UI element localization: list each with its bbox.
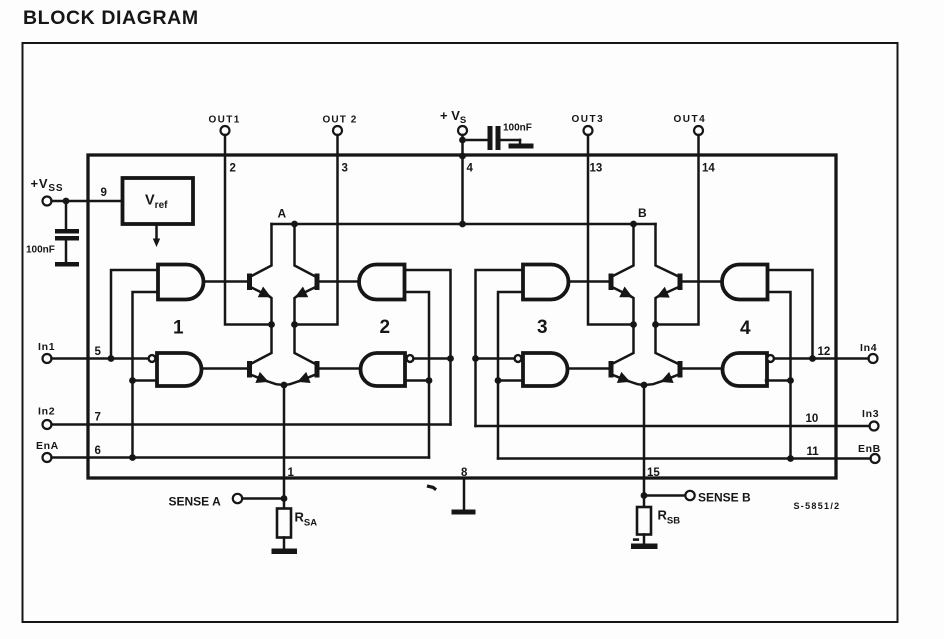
and gate 2 bottom (inverting input) (361, 353, 451, 386)
svg-text:OUT4: OUT4 (674, 114, 707, 125)
and gate 1 top (158, 265, 204, 300)
junction +VS / capacitor tap (459, 137, 466, 144)
junction common emitter A (281, 382, 288, 389)
wire gate1 bottom output to Q2 base (203, 367, 247, 370)
svg-text:15: 15 (647, 467, 660, 479)
junction common emitter B (641, 382, 648, 389)
resistor RSA (277, 499, 317, 538)
ground at RSB (631, 535, 658, 550)
and gate 4 bottom (inverting input) (723, 353, 774, 386)
wire gate4 top output to Q7 base (682, 280, 722, 283)
svg-text:11: 11 (807, 446, 820, 458)
wire In4 (774, 357, 869, 360)
wire EnB bus channel4 (768, 292, 791, 459)
wire EnA (52, 456, 430, 459)
wire gate2 bottom output to Q4 base (319, 367, 360, 370)
wire In3 bus up to gate3 top input (476, 270, 524, 426)
transistor Q3 upper (channel 2) (295, 224, 320, 325)
pin In1 (38, 341, 102, 363)
junction In3 bus / gate3 inverting input (472, 355, 479, 362)
pin 8 ground (452, 467, 476, 515)
pin SENSE A (169, 494, 285, 509)
junction EnA bus / gate2 lower input (426, 377, 433, 384)
wire EnB bus channel3 (498, 292, 523, 459)
wire EnA to gate1 lower input (133, 379, 158, 382)
wire In2 bus up to gate2 top input (405, 270, 451, 425)
wire EnB to gate3 lower input (498, 379, 523, 382)
wire pin9 to Vref (52, 200, 123, 203)
transistor Q5 upper (channel 3) (609, 224, 634, 325)
wire EnA to gate2 lower input (405, 379, 429, 382)
junction sense B (641, 492, 648, 499)
and gate 1 bottom (inverting input) (149, 353, 202, 386)
svg-text:Vref: Vref (145, 193, 168, 211)
svg-text:2: 2 (380, 317, 391, 338)
wire OUT4 to half-bridge 4 output node (656, 135, 699, 325)
pin In3 (806, 408, 880, 431)
svg-text:A: A (278, 207, 287, 221)
svg-text:12: 12 (818, 346, 831, 358)
svg-text:OUT 2: OUT 2 (323, 115, 358, 126)
svg-text:In4: In4 (860, 342, 877, 354)
wire gate4 bottom output to Q8 base (682, 367, 722, 370)
and gate 2 top (359, 265, 405, 300)
junction output node half-bridge 2 (291, 321, 298, 328)
junction EnB bus / gate3 lower input (495, 377, 502, 384)
junction output node half-bridge 1 (268, 321, 275, 328)
svg-text:SENSE B: SENSE B (698, 491, 751, 505)
ground at +VSS capacitor (55, 262, 79, 267)
junction sense A (281, 495, 288, 502)
pin OUT1 (209, 115, 241, 175)
junction rail / +VS (459, 221, 466, 228)
pin SENSE B (644, 491, 751, 505)
IC body (88, 155, 836, 478)
transistor Q7 upper (channel 4) (656, 224, 683, 325)
junction EnA bus / gate1 lower input (129, 377, 136, 384)
svg-text:OUT1: OUT1 (209, 115, 241, 126)
wire In1 to gate1 top input (111, 270, 158, 359)
and gate 3 top (523, 265, 569, 300)
svg-text:4: 4 (467, 163, 474, 175)
svg-text:13: 13 (590, 163, 603, 175)
svg-text:SENSE A: SENSE A (169, 495, 222, 509)
svg-text:3: 3 (342, 163, 348, 175)
wire In3 to gate3 inverting input (476, 357, 515, 360)
voltage reference Vref (123, 178, 194, 224)
node A (278, 207, 298, 228)
junction In2 bus / gate2 inverting input (447, 355, 454, 362)
pin OUT4 (674, 114, 716, 175)
junction EnB bus / gate4 lower input (787, 377, 794, 384)
supply rail node A to node B (272, 223, 656, 226)
wire EnB to gate4 lower input (766, 379, 791, 382)
wire In4 to gate4 top input (768, 270, 813, 359)
wire OUT3 to half-bridge 3 output node (588, 135, 634, 325)
junction EnB / channel4 bus (787, 455, 794, 462)
svg-text:1: 1 (173, 318, 184, 339)
junction output node half-bridge 4 (652, 321, 659, 328)
wire In2 to channel2 bus (52, 423, 451, 426)
capacitor 100nF at +VS (467, 123, 532, 151)
resistor RSB (637, 496, 680, 535)
stray scan mark left of RSB ground (634, 538, 638, 541)
node B (630, 206, 647, 227)
wire OUT2 to half-bridge 2 output node (295, 135, 338, 325)
ground at RSA (272, 538, 298, 555)
svg-text:+ VS: + VS (440, 108, 466, 126)
transistor Q1 upper (channel 1) (247, 224, 272, 325)
pin EnA (36, 440, 101, 462)
junction +VSS / capacitor tap (63, 198, 70, 205)
wire gate3 bottom output to Q6 base (568, 367, 609, 370)
svg-text:1: 1 (288, 467, 295, 479)
wire gate2 top output to Q3 base (319, 280, 359, 283)
svg-text:OUT3: OUT3 (572, 114, 605, 125)
wire +VS supply into IC (461, 135, 464, 224)
svg-text:3: 3 (537, 317, 548, 338)
wire OUT1 to half-bridge 1 output node (225, 135, 272, 325)
svg-text:10: 10 (806, 413, 819, 425)
svg-text:6: 6 (95, 445, 101, 457)
svg-text:EnB: EnB (858, 443, 881, 455)
wire gate3 top output to Q5 base (568, 280, 609, 283)
svg-text:9: 9 (101, 187, 107, 199)
wire EnB (498, 457, 871, 460)
svg-text:100nF: 100nF (503, 123, 532, 134)
svg-text:EnA: EnA (36, 440, 59, 452)
pin In4 (818, 342, 878, 363)
pin OUT3 (572, 114, 605, 175)
wire EnA bus channel1 (133, 292, 159, 458)
junction In4 branch (809, 355, 816, 362)
wire pin1 sense A (283, 385, 286, 499)
svg-text:BLOCK DIAGRAM: BLOCK DIAGRAM (23, 7, 199, 29)
svg-text:In3: In3 (862, 408, 879, 420)
wire In3 to channel3 bus (476, 425, 870, 428)
ground at +VS capacitor (509, 140, 534, 149)
transistor Q2 lower (channel 1) (247, 325, 284, 386)
transistor Q8 lower (channel 4) (644, 325, 683, 386)
svg-text:In2: In2 (38, 406, 55, 418)
transistor Q6 lower (channel 3) (609, 325, 645, 386)
svg-text:B: B (638, 206, 647, 220)
svg-text:+VSS: +VSS (31, 176, 64, 194)
svg-text:S-5851/2: S-5851/2 (794, 501, 841, 511)
svg-text:7: 7 (95, 412, 101, 424)
pin +VSS (31, 176, 107, 206)
junction output node half-bridge 3 (630, 321, 637, 328)
junction +VS at IC edge (459, 153, 466, 160)
wire pin15 sense B (643, 385, 646, 496)
junction In1 branch (108, 355, 115, 362)
svg-text:In1: In1 (38, 341, 55, 353)
stray scan mark below pin 1 rail (429, 486, 435, 489)
wire EnA bus channel2 (405, 292, 430, 458)
pin +VS (440, 108, 474, 175)
pin OUT2 (323, 115, 358, 175)
and gate 4 top (722, 265, 767, 300)
capacitor 100nF at +VSS (26, 201, 79, 262)
svg-text:4: 4 (740, 318, 751, 339)
svg-text:5: 5 (95, 346, 102, 358)
arrow below Vref (153, 224, 160, 247)
svg-text:14: 14 (702, 163, 715, 175)
svg-text:2: 2 (230, 163, 236, 175)
svg-text:RSA: RSA (295, 510, 318, 529)
svg-text:100nF: 100nF (26, 245, 55, 256)
svg-text:RSB: RSB (658, 508, 681, 527)
transistor Q4 lower (channel 2) (284, 325, 320, 386)
pin In2 (38, 406, 101, 430)
pin EnB (807, 443, 881, 463)
junction EnA / channel1 bus (129, 454, 136, 461)
and gate 3 bottom (inverting input) (515, 353, 568, 386)
wire In1 (52, 357, 149, 360)
wire gate1 top output to Q1 base (204, 280, 247, 283)
